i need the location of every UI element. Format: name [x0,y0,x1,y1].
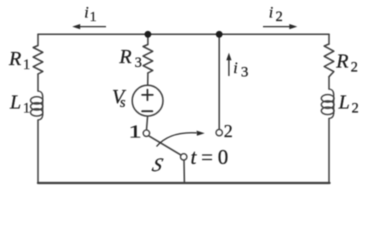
switch pivot circle [181,154,187,160]
wire left lower [37,120,39,183]
wire left upper [37,34,39,45]
voltage source Vs [132,85,163,116]
resistor R3 [143,45,153,74]
resistor R2 [324,44,334,77]
junction node dot left [145,31,152,38]
wire R3 to Vs [147,73,149,85]
terminal circle 1 [143,130,149,136]
switch blade S [149,136,182,155]
inductor L2 [321,89,334,119]
current arrow i3 [226,53,231,76]
svg-text:Vs: Vs [112,86,127,111]
svg-text:S: S [150,155,165,176]
Vs minus sign [142,110,152,112]
svg-text:t=0: t=0 [191,145,229,169]
wire top [38,33,329,35]
svg-text:1: 1 [128,122,141,142]
wire bottom [38,182,330,184]
switch motion arc arrow [157,131,205,147]
wire terminal 2 up to node [218,34,220,129]
svg-text:i3: i3 [233,60,248,80]
junction node dot right [216,31,223,38]
svg-text:i2: i2 [269,5,283,25]
svg-text:L1: L1 [9,92,30,117]
wire right lower [328,119,330,184]
wire Vs to terminal 1 [147,116,148,130]
resistor R1 [33,46,43,75]
terminal circle 2 [216,129,222,135]
inductor L1 [31,91,43,120]
svg-text:2: 2 [224,121,233,141]
Vs plus sign [142,90,153,101]
svg-text:R1: R1 [8,48,30,73]
svg-text:L2: L2 [338,92,359,117]
wire right mid [328,77,330,89]
svg-text:i1: i1 [84,4,96,24]
svg-text:R2: R2 [335,51,358,76]
current arrow i1 [72,24,106,29]
current arrow i2 [263,24,297,29]
wire pivot to bottom [183,160,185,183]
svg-text:R3: R3 [118,46,141,71]
wire right upper [328,34,330,44]
wire left mid [37,74,39,91]
wire R3 branch top [147,34,149,44]
